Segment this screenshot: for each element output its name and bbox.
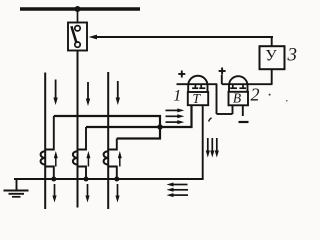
arrow relay input current 2 — [166, 114, 185, 118]
svg-text:2: 2 — [251, 84, 260, 104]
arrow return current 1 — [206, 138, 210, 158]
arrow load current phase A — [53, 80, 57, 106]
arrow CT 3 secondary current — [118, 151, 122, 167]
arrow return current 2 — [210, 138, 214, 158]
node CT2 return — [84, 177, 89, 182]
svg-text:У: У — [265, 47, 277, 64]
wire relay 1 contact to relay 2 coil — [217, 83, 233, 114]
wire trip command with arrowhead to breaker — [89, 35, 274, 47]
svg-text:В: В — [233, 91, 241, 106]
ground — [4, 179, 29, 197]
arrow return current 3 — [215, 138, 219, 158]
relay 2 time relay V — [229, 76, 249, 105]
arrow outgoing phase B — [85, 184, 89, 203]
wire CT1 to junction — [54, 116, 160, 127]
arrow outgoing phase C — [115, 184, 119, 203]
arrow outgoing phase A — [52, 184, 56, 203]
feeder phase B through breaker — [77, 51, 79, 208]
wire relay 1 coil return — [202, 105, 204, 179]
node busbar junction — [75, 6, 81, 12]
relay 1 current relay T — [188, 76, 208, 105]
arrow CT 1 secondary current — [54, 151, 58, 167]
CT 3 secondary winding — [104, 151, 109, 164]
arrow ground return 2 — [167, 188, 189, 192]
speck — [286, 100, 288, 102]
node CT1 return — [51, 177, 56, 182]
feeder phase C — [107, 72, 109, 209]
busbar — [20, 7, 140, 10]
CT 3 secondary top lead — [108, 139, 117, 150]
CT 3 secondary bottom lead — [108, 167, 117, 180]
CT 2 secondary winding — [73, 151, 78, 164]
arrow ground return 3 — [167, 193, 189, 197]
svg-text:3: 3 — [287, 45, 298, 66]
ground bus wire — [14, 178, 204, 180]
CT 1 secondary bottom lead — [45, 167, 54, 180]
feeder phase A — [44, 73, 46, 210]
svg-text:1: 1 — [173, 88, 181, 105]
node CT3 return — [114, 177, 119, 182]
CT 2 secondary bottom lead — [78, 167, 87, 180]
CT 1 secondary top lead — [45, 116, 54, 150]
arrow ground return 1 — [167, 183, 188, 187]
tick mark — [209, 118, 212, 122]
plus terminal relay 1 — [178, 71, 185, 78]
node CT wires junction — [157, 124, 162, 129]
wire CT3 to junction — [117, 127, 160, 139]
arrow relay input current 3 — [166, 120, 185, 124]
plus terminal relay 2 — [219, 68, 226, 75]
circuit breaker — [68, 23, 87, 51]
wire relay 2 coil to minus — [242, 105, 244, 116]
relay U box (signal relay) — [260, 46, 285, 69]
wire CT2 to relay 1 coil — [86, 105, 192, 127]
arrow CT 2 secondary current — [86, 151, 90, 167]
CT 1 secondary winding — [41, 151, 46, 164]
wire U box to relay 2 contact — [222, 69, 273, 84]
CT 2 secondary top lead — [78, 127, 87, 150]
arrow relay input current 1 — [166, 108, 185, 112]
minus terminal — [239, 121, 249, 123]
wire busbar to breaker — [77, 9, 79, 23]
arrow load current phase C — [116, 81, 120, 105]
speck — [269, 94, 271, 96]
wire plus to relay 1 contact — [177, 83, 217, 85]
arrow load current phase B — [86, 82, 90, 106]
